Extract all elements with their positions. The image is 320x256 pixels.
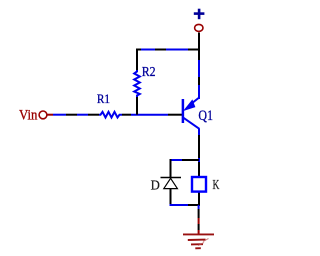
svg-text:K: K bbox=[213, 178, 220, 193]
svg-text:R1: R1 bbox=[97, 92, 110, 106]
svg-text:D: D bbox=[151, 178, 160, 193]
svg-text:R2: R2 bbox=[142, 64, 156, 79]
svg-text:Vin: Vin bbox=[19, 108, 38, 124]
svg-text:Q1: Q1 bbox=[198, 108, 213, 124]
